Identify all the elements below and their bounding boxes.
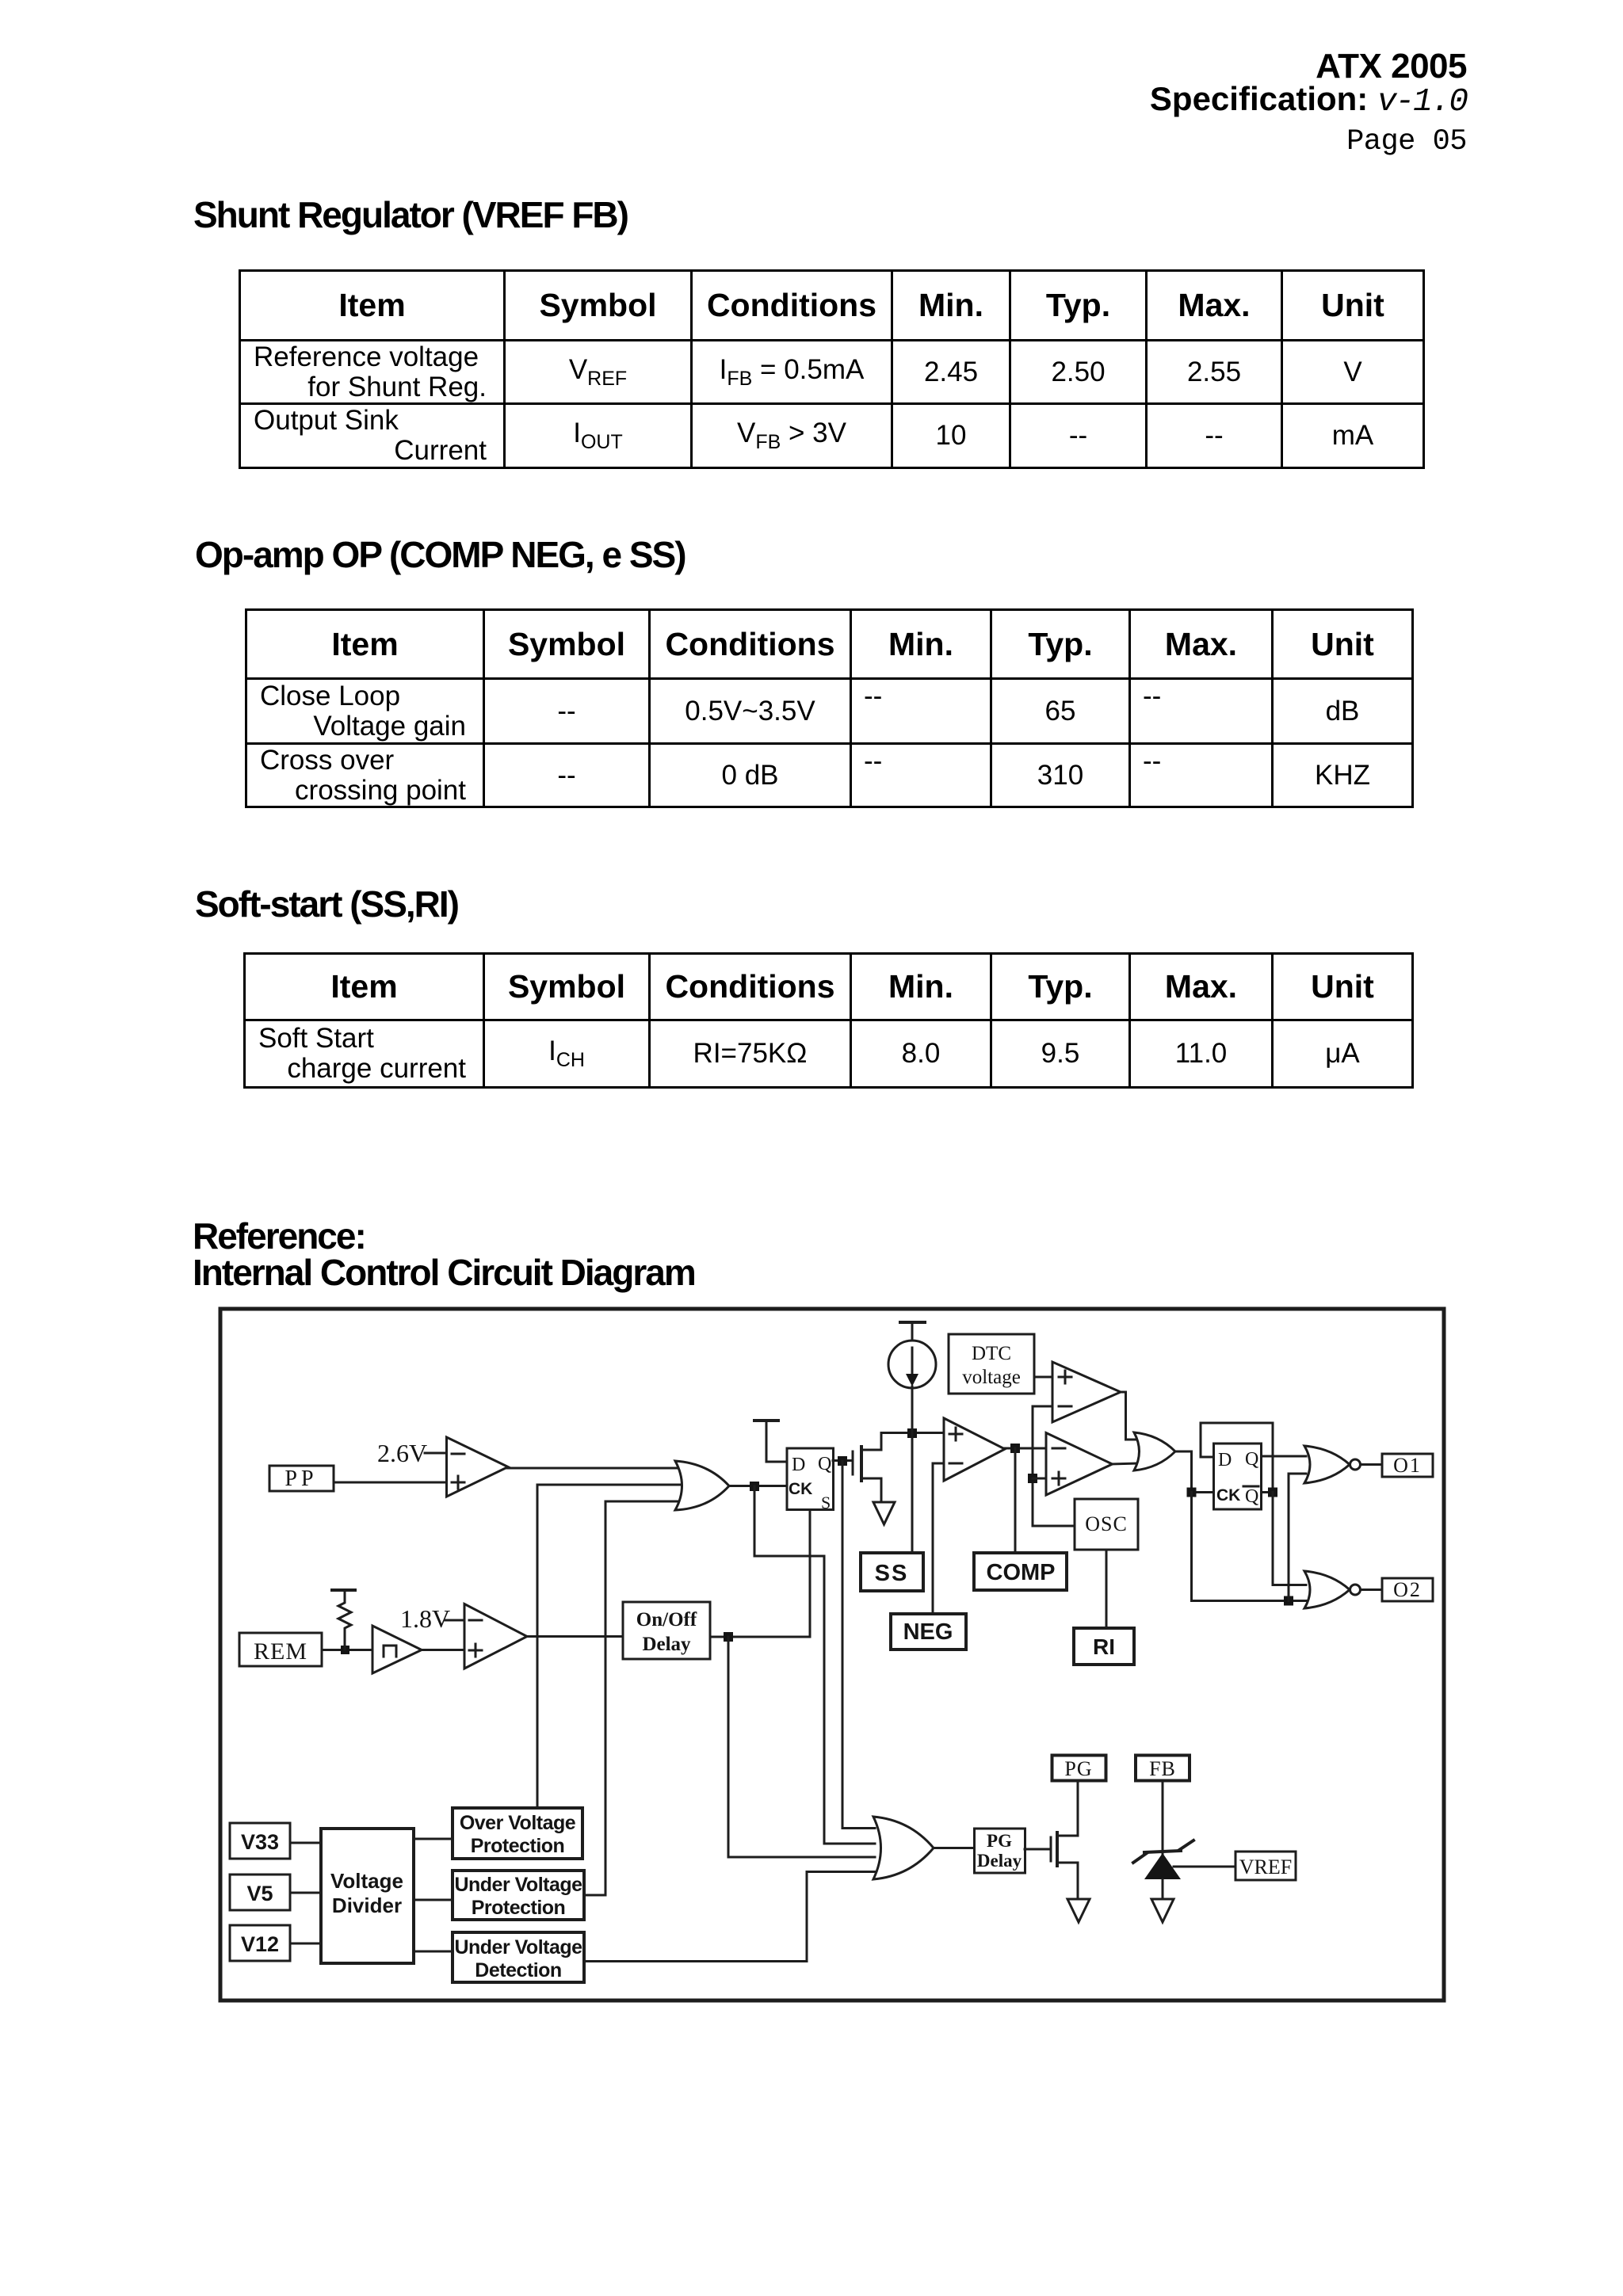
node SS box bbox=[861, 1553, 923, 1591]
feedback loop wire flip-flop U8 Qbar to D bbox=[1201, 1423, 1273, 1493]
svg-text:CK: CK bbox=[789, 1480, 812, 1498]
wire U6 output junction down to COMP box bbox=[1014, 1448, 1017, 1553]
node V33 box bbox=[230, 1823, 290, 1859]
section heading 1 bbox=[193, 193, 628, 236]
header right block bbox=[1316, 47, 1467, 86]
wire comparator U6 output to comparator U7 minus input bbox=[1003, 1447, 1048, 1450]
wire NEG box to comparator U6 minus input bbox=[933, 1463, 945, 1614]
Under Voltage Protection box bbox=[453, 1871, 584, 1920]
node FB box bbox=[1136, 1756, 1190, 1781]
svg-text:Under Voltage: Under Voltage bbox=[454, 1936, 582, 1958]
junction on Q output of U4 bbox=[838, 1456, 847, 1466]
junction on U6 output bbox=[1010, 1444, 1020, 1453]
ground below zener D1 bbox=[1151, 1899, 1174, 1922]
wire 1.8V to comparator U3 minus input bbox=[445, 1619, 465, 1622]
wire OR gate G1 output to flip-flop U4 CK bbox=[729, 1485, 787, 1487]
wire op-amp U5 output to OR gate G2 input 1 bbox=[1119, 1392, 1137, 1440]
svg-text:Voltage: Voltage bbox=[330, 1869, 403, 1893]
svg-text:Q: Q bbox=[1245, 1449, 1258, 1470]
svg-text:D: D bbox=[792, 1455, 805, 1475]
Over Voltage Protection box bbox=[453, 1808, 582, 1859]
wire On/Off Delay output to flip-flop U4 S input bbox=[710, 1510, 810, 1637]
wire NOR gate G4 output to O2 bbox=[1361, 1589, 1382, 1591]
wire V33 to Voltage Divider bbox=[290, 1842, 321, 1844]
svg-text:RI: RI bbox=[1093, 1634, 1115, 1659]
OR gate G8 (4-input) bbox=[873, 1817, 934, 1879]
NOR gate G4 bbox=[1304, 1571, 1361, 1608]
junction on U8 Qbar output bbox=[1268, 1488, 1277, 1497]
node DTC voltage box bbox=[949, 1334, 1034, 1394]
buffer U2 (Schmitt) bbox=[372, 1626, 422, 1673]
wire over-voltage-protection to OR gate G1 input 2 bbox=[537, 1485, 685, 1808]
junction on CK line of U8 bbox=[1187, 1488, 1197, 1497]
wire OSC junction to comparator U7 plus input bbox=[1033, 1478, 1048, 1480]
wire comparator U1 output to OR gate G1 bbox=[507, 1467, 683, 1470]
svg-text:Delay: Delay bbox=[642, 1634, 691, 1655]
wire comparator U7 output to OR gate G2 input 2 bbox=[1111, 1463, 1137, 1464]
svg-text:voltage: voltage bbox=[962, 1367, 1021, 1388]
wire OSC net vertical to op-amp U5 minus and comparator U7 plus bbox=[1033, 1406, 1075, 1526]
wire OSC box to RI box bbox=[1106, 1550, 1108, 1628]
wire Voltage Divider to Under Voltage Protection bbox=[414, 1899, 453, 1901]
wire buffer U2 to comparator U3 plus input bbox=[420, 1649, 465, 1651]
svg-text:PP: PP bbox=[285, 1466, 317, 1491]
comparator U3 (1.8V) bbox=[464, 1604, 527, 1669]
wire flip-flop U8 Q output to NOR gate G3 input 1 bbox=[1261, 1455, 1306, 1458]
zener diode D1 bbox=[1133, 1840, 1193, 1879]
comparator U7 (PWM) bbox=[1046, 1433, 1113, 1496]
svg-text:Q: Q bbox=[818, 1454, 831, 1474]
svg-text:SS: SS bbox=[875, 1561, 909, 1586]
pull-up bar above resistor R1 bbox=[332, 1589, 355, 1592]
svg-text:Over Voltage: Over Voltage bbox=[460, 1812, 576, 1834]
wire V12 to Voltage Divider bbox=[290, 1943, 321, 1945]
wire NOR gate G3 output to O1 bbox=[1361, 1463, 1382, 1466]
comparator U6 (error amp) bbox=[944, 1418, 1005, 1481]
flip-flop U4 bbox=[787, 1448, 834, 1512]
svg-text:Q: Q bbox=[1245, 1486, 1258, 1507]
svg-text:OSC: OSC bbox=[1085, 1512, 1128, 1535]
svg-text:V12: V12 bbox=[241, 1932, 279, 1956]
svg-text:Protection: Protection bbox=[472, 1897, 566, 1919]
svg-text:PG: PG bbox=[1064, 1757, 1092, 1780]
wire V5 to Voltage Divider bbox=[290, 1892, 321, 1894]
svg-text:CK: CK bbox=[1216, 1486, 1240, 1505]
wire Under Voltage Detection to OR gate G8 input 4 bbox=[584, 1872, 875, 1962]
table 2 bbox=[245, 608, 1414, 808]
table 3 bbox=[243, 952, 1414, 1089]
OR gate G1 bbox=[675, 1461, 729, 1510]
wire Voltage Divider to Over Voltage Protection bbox=[414, 1838, 453, 1840]
node OSC box bbox=[1075, 1499, 1138, 1550]
PG Delay box bbox=[975, 1829, 1025, 1873]
wire under-voltage-protection to OR gate G1 input 3 bbox=[584, 1501, 682, 1895]
svg-text:NEG: NEG bbox=[903, 1619, 953, 1645]
wire G1 output junction down to OR gate G8 input 2 bbox=[754, 1486, 875, 1844]
node PP box bbox=[269, 1466, 334, 1491]
svg-text:COMP: COMP bbox=[987, 1560, 1056, 1585]
OR gate G2 bbox=[1134, 1432, 1175, 1470]
junction on G1 output bbox=[750, 1482, 759, 1491]
node COMP box bbox=[974, 1553, 1067, 1590]
svg-text:On/Off: On/Off bbox=[636, 1609, 697, 1630]
wire DTC voltage to op-amp U5 plus input bbox=[1034, 1376, 1054, 1379]
svg-text:V33: V33 bbox=[241, 1830, 279, 1854]
ground below transistor Q2 bbox=[1067, 1899, 1090, 1922]
wire NOR rail junction up to NOR gate G3 input 2 bbox=[1289, 1474, 1306, 1601]
wire comparator U3 output to On/Off Delay bbox=[526, 1635, 623, 1638]
Voltage Divider box bbox=[321, 1829, 414, 1963]
wire 2.6V to comparator U1 minus input bbox=[425, 1452, 447, 1455]
junction on On/Off Delay output bbox=[724, 1632, 733, 1642]
svg-text:O1: O1 bbox=[1393, 1454, 1422, 1477]
comparator U1 (2.6V) bbox=[447, 1437, 509, 1497]
wire OR gate G8 output to PG Delay bbox=[934, 1847, 975, 1849]
diagram outer frame bbox=[220, 1309, 1444, 2000]
svg-text:FB: FB bbox=[1149, 1757, 1176, 1780]
wire REM to buffer U2 bbox=[322, 1649, 374, 1651]
wire On/Off junction down to OR gate G8 input 3 bbox=[728, 1637, 875, 1857]
wire FB down to zener D1 bbox=[1162, 1781, 1164, 1854]
svg-text:O2: O2 bbox=[1393, 1578, 1422, 1601]
NOR gate G3 bbox=[1304, 1446, 1361, 1483]
flip-flop U8 bbox=[1214, 1444, 1262, 1509]
svg-text:PG: PG bbox=[987, 1831, 1012, 1851]
wire U4 Q junction down to OR gate G8 input 1 bbox=[842, 1461, 875, 1829]
svg-text:D: D bbox=[1218, 1450, 1232, 1470]
section heading 2 bbox=[195, 533, 685, 576]
ground below transistor Q1 bbox=[873, 1502, 895, 1524]
svg-text:VREF: VREF bbox=[1239, 1855, 1292, 1878]
junction on NOR rail bbox=[1284, 1596, 1293, 1606]
node NEG box bbox=[891, 1614, 966, 1650]
wire zener D1 anode down to ground bbox=[1162, 1879, 1164, 1899]
wire flip-flop U4 Q output to transistor Q1 gate bbox=[833, 1459, 851, 1462]
node O1 box bbox=[1382, 1454, 1433, 1477]
wire CK junction down to NOR gates input rail bbox=[1192, 1493, 1307, 1601]
node VREF box bbox=[1235, 1852, 1296, 1880]
svg-text:Delay: Delay bbox=[977, 1851, 1022, 1871]
Under Voltage Detection box bbox=[453, 1932, 584, 1982]
wire OR gate G2 output to flip-flop U8 CK bbox=[1175, 1451, 1214, 1493]
node V5 box bbox=[230, 1875, 290, 1910]
transistor Q1 bbox=[853, 1433, 881, 1501]
wire U8 Qbar junction down to NOR gate G4 input 1 bbox=[1273, 1493, 1306, 1585]
wire transistor Q1 drain to comparator U6 plus input bbox=[881, 1432, 945, 1434]
power bar above current source I1 bbox=[900, 1322, 925, 1342]
op-amp U5 (DTC) bbox=[1052, 1362, 1121, 1422]
wire PP to comparator U1 plus input bbox=[334, 1482, 447, 1484]
svg-text:V5: V5 bbox=[246, 1882, 273, 1905]
svg-text:1.8V: 1.8V bbox=[400, 1604, 450, 1633]
svg-text:Detection: Detection bbox=[475, 1959, 561, 1981]
table 1 bbox=[239, 269, 1425, 469]
wire PG Delay to transistor Q2 gate bbox=[1025, 1848, 1049, 1851]
resistor R1 bbox=[338, 1591, 351, 1650]
node PG box bbox=[1052, 1756, 1106, 1781]
transistor Q2 bbox=[1051, 1781, 1078, 1899]
wire current source I1 down to SS box bbox=[911, 1386, 914, 1553]
node RI box bbox=[1074, 1628, 1134, 1665]
svg-text:Divider: Divider bbox=[332, 1894, 402, 1917]
svg-text:Under Voltage: Under Voltage bbox=[454, 1874, 582, 1896]
svg-text:2.6V: 2.6V bbox=[377, 1439, 427, 1467]
current source I1 bbox=[888, 1341, 936, 1388]
wire Voltage Divider to Under Voltage Detection bbox=[414, 1951, 453, 1953]
junction of current source line and drain wire bbox=[907, 1428, 917, 1438]
section heading 3 bbox=[195, 883, 458, 925]
On/Off Delay box bbox=[623, 1602, 710, 1659]
node REM box bbox=[239, 1633, 322, 1666]
wire zener D1 to VREF box bbox=[1174, 1866, 1235, 1868]
section heading 4 bbox=[193, 1215, 365, 1257]
junction on REM wire bbox=[341, 1646, 349, 1654]
svg-text:DTC: DTC bbox=[972, 1343, 1011, 1364]
svg-text:Protection: Protection bbox=[471, 1835, 565, 1857]
svg-text:S: S bbox=[821, 1493, 831, 1512]
junction on OSC vertical bbox=[1028, 1474, 1037, 1483]
pull-up bar above flip-flop U4 bbox=[754, 1421, 778, 1462]
svg-text:REM: REM bbox=[254, 1638, 307, 1665]
node V12 box bbox=[230, 1925, 290, 1961]
node O2 box bbox=[1382, 1578, 1433, 1601]
wire pull-up to flip-flop U4 D input bbox=[766, 1461, 787, 1463]
